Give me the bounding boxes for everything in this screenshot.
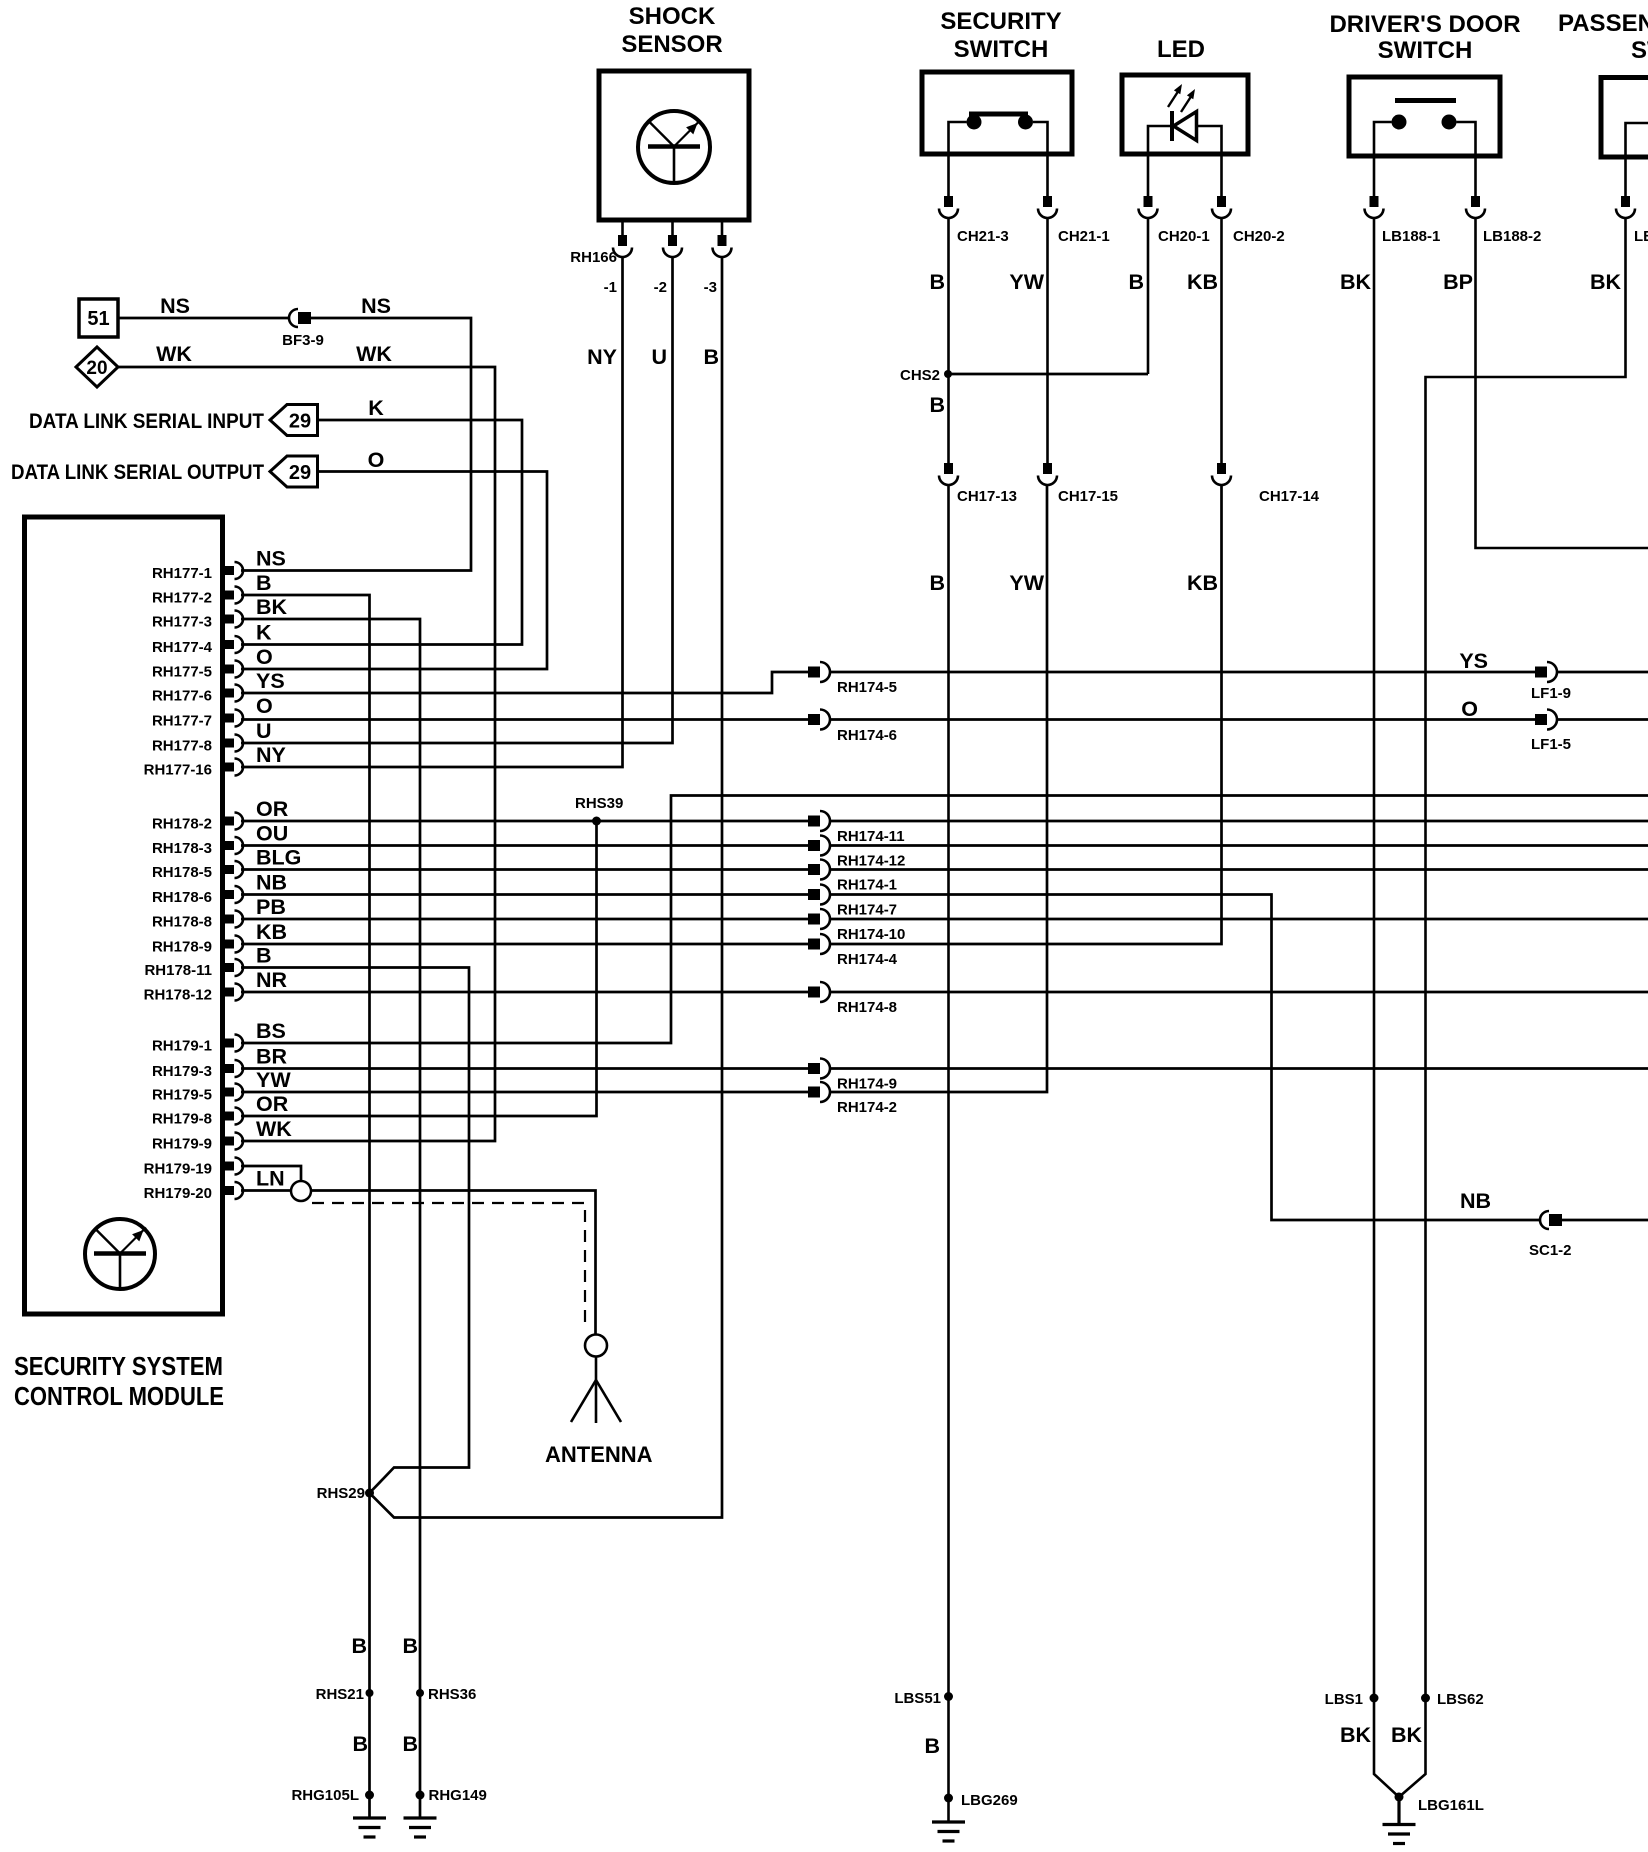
svg-text:O: O	[256, 645, 273, 669]
module pin RH177-3	[225, 611, 243, 628]
wire NB to lower run	[829, 895, 1540, 1221]
svg-text:B: B	[402, 1634, 418, 1658]
wire YW RH179-5 to RH174-2	[241, 1091, 808, 1094]
security switch contact right	[1018, 115, 1033, 130]
source diamond 20	[76, 347, 118, 387]
wire B LED down to CHS2 level	[1147, 218, 1150, 374]
module internal transistor symbol	[85, 1219, 155, 1289]
wire security switch left stub	[949, 122, 967, 197]
connector RH174-6	[808, 710, 830, 730]
ground RHG105L	[353, 1818, 386, 1837]
svg-text:RH177-16: RH177-16	[144, 762, 212, 779]
wire KB to LED CH17-14	[829, 486, 1222, 944]
node RHG105L	[365, 1791, 374, 1800]
svg-text:OR: OR	[256, 797, 289, 821]
svg-text:LF1-5: LF1-5	[1531, 736, 1571, 753]
svg-text:RH178-3: RH178-3	[152, 840, 212, 857]
module pin RH178-6	[225, 886, 243, 903]
svg-text:B: B	[929, 270, 945, 294]
wire PB RH178-8 to RH174-10	[241, 918, 808, 921]
node LBS62	[1421, 1694, 1430, 1703]
module pin RH177-7	[225, 710, 243, 727]
antenna mast	[595, 1357, 598, 1381]
svg-text:LB188-2: LB188-2	[1483, 228, 1541, 245]
module pin RH177-4	[225, 636, 243, 653]
driver's door switch box	[1349, 77, 1500, 156]
label SECURITY SWITCH title	[940, 8, 1061, 63]
connector RH174-9	[808, 1059, 830, 1079]
module pin RH177-5	[225, 661, 243, 678]
wire NB RH178-6 to RH174-7	[241, 893, 808, 896]
svg-text:WK: WK	[356, 342, 392, 366]
wire B security switch down to CH17-13	[947, 218, 950, 464]
wire NY RH177-16 to shock sensor pin 1	[241, 257, 623, 767]
svg-text:B: B	[929, 393, 945, 417]
label DRIVER'S DOOR SWITCH title	[1329, 11, 1520, 64]
svg-text:CH17-14: CH17-14	[1259, 488, 1320, 505]
label PASSENGER'S DOOR SWITCH title (clipped)	[1558, 10, 1648, 64]
wire YW security down to CH17-15	[1046, 218, 1049, 464]
wire LBG161L ground stub	[1397, 1797, 1400, 1825]
connector pin RH166-2	[663, 235, 682, 257]
shock sensor pin RH166-3 stub	[721, 220, 724, 236]
wire driver switch right stub	[1457, 122, 1476, 197]
connector LF1-9	[1535, 662, 1557, 682]
svg-text:YW: YW	[1009, 270, 1044, 294]
connector RH174-4	[808, 934, 830, 954]
security switch contact left	[967, 115, 982, 130]
svg-text:NB: NB	[1460, 1189, 1491, 1213]
wire NS to module pin RH177-1	[241, 318, 471, 571]
svg-text:SWITCH: SWITCH	[1631, 37, 1648, 64]
svg-text:51: 51	[87, 308, 109, 330]
svg-text:RH174-10: RH174-10	[837, 926, 905, 943]
svg-text:K: K	[256, 621, 272, 645]
svg-text:RHG105L: RHG105L	[291, 1787, 359, 1804]
antenna coil circle	[585, 1335, 607, 1357]
svg-text:RH174-7: RH174-7	[837, 902, 897, 919]
svg-text:WK: WK	[256, 1117, 292, 1141]
wire antenna shield (dashed)	[312, 1203, 585, 1330]
svg-text:O: O	[256, 694, 273, 718]
node RHS36	[416, 1689, 424, 1697]
module pin RH179-1	[225, 1035, 243, 1052]
wire O RH177-7 to RH174-6	[241, 718, 808, 721]
node CHS2	[944, 370, 952, 378]
svg-text:RH174-6: RH174-6	[837, 727, 897, 744]
svg-text:RH177-6: RH177-6	[152, 688, 212, 705]
wire B RH177-2 to ground rail	[241, 595, 370, 1818]
svg-text:LBS51: LBS51	[894, 1690, 941, 1707]
svg-text:BK: BK	[1590, 270, 1622, 294]
module pin RH177-6	[225, 685, 243, 702]
svg-text:BLG: BLG	[256, 846, 301, 870]
svg-text:LF1-9: LF1-9	[1531, 685, 1571, 702]
data link serial input arrow 29	[270, 405, 318, 436]
svg-text:-2: -2	[654, 279, 667, 296]
wire PB off right edge	[829, 918, 1648, 921]
wire OR off right edge	[829, 820, 1648, 823]
svg-text:B: B	[929, 571, 945, 595]
module pin RH179-3	[225, 1060, 243, 1077]
connector RH174-8	[808, 982, 830, 1002]
node LBS1	[1370, 1694, 1379, 1703]
svg-text:CH20-1: CH20-1	[1158, 228, 1210, 245]
svg-text:DATA LINK SERIAL OUTPUT: DATA LINK SERIAL OUTPUT	[11, 460, 264, 484]
node LBG161L	[1395, 1793, 1404, 1802]
svg-text:KB: KB	[1187, 571, 1218, 595]
wire B RH178-11 to node RHS29	[241, 968, 469, 1494]
svg-text:LBS1: LBS1	[1325, 1691, 1363, 1708]
node RHS21	[366, 1689, 374, 1697]
module pin RH178-9	[225, 936, 243, 953]
svg-text:RH179-5: RH179-5	[152, 1087, 212, 1104]
wire NS from box 51	[119, 317, 289, 320]
svg-text:RH179-19: RH179-19	[144, 1161, 212, 1178]
wire K to module pin RH177-4	[241, 420, 522, 645]
svg-text:RHS29: RHS29	[317, 1485, 365, 1502]
svg-text:RH177-5: RH177-5	[152, 664, 212, 681]
svg-text:RH177-8: RH177-8	[152, 738, 212, 755]
shock sensor pin RH166-2 stub	[671, 220, 674, 236]
svg-text:U: U	[651, 345, 667, 369]
svg-text:PB: PB	[256, 895, 286, 919]
wire OR RH178-2 to RH174-11	[241, 820, 808, 823]
connector RH174-2	[808, 1082, 830, 1102]
connector RH174-10	[808, 909, 830, 929]
wire driver switch left stub	[1374, 122, 1392, 197]
label SHOCK SENSOR title	[621, 3, 722, 58]
svg-text:O: O	[368, 448, 385, 472]
svg-text:RH177-7: RH177-7	[152, 713, 212, 730]
wire O to LF1-5	[829, 718, 1535, 721]
svg-text:RHS39: RHS39	[575, 795, 623, 812]
antenna leg left	[571, 1380, 596, 1422]
svg-text:RH179-3: RH179-3	[152, 1063, 212, 1080]
svg-text:B: B	[352, 1732, 368, 1756]
svg-text:BK: BK	[1340, 1723, 1372, 1747]
svg-text:K: K	[368, 396, 384, 420]
module pin RH179-5	[225, 1084, 243, 1101]
module pin RH178-12	[225, 984, 243, 1001]
wire BLG RH178-5 to RH174-1	[241, 868, 808, 871]
wire CHS2 branch to LED B	[949, 373, 1149, 376]
svg-text:20: 20	[86, 358, 107, 379]
antenna leg right	[596, 1380, 621, 1422]
connector RH174-11	[808, 811, 830, 831]
svg-text:O: O	[1461, 697, 1478, 721]
svg-text:-3: -3	[704, 279, 717, 296]
wire O off right edge	[1556, 718, 1648, 721]
svg-text:BK: BK	[1391, 1723, 1423, 1747]
svg-text:RH178-11: RH178-11	[144, 962, 212, 979]
wire OU off right edge	[829, 844, 1648, 847]
svg-text:NS: NS	[256, 547, 286, 571]
wire LN RH179-20 to junction circle	[241, 1189, 291, 1192]
antenna leg middle	[595, 1380, 598, 1423]
svg-text:BS: BS	[256, 1019, 286, 1043]
svg-text:LBG269: LBG269	[961, 1792, 1018, 1809]
svg-text:CH21-3: CH21-3	[957, 228, 1009, 245]
connector CH17-13	[939, 463, 958, 485]
wire B security to ground LBG269	[947, 486, 950, 1823]
module pin RH178-8	[225, 911, 243, 928]
svg-text:RH178-6: RH178-6	[152, 889, 212, 906]
connector RH174-7	[808, 885, 830, 905]
connector pin LB188 (passenger)	[1616, 196, 1635, 218]
LED D1 triangle	[1174, 112, 1197, 141]
module pin RH178-5	[225, 861, 243, 878]
svg-text:RH174-2: RH174-2	[837, 1099, 897, 1116]
svg-text:CHS2: CHS2	[900, 367, 940, 384]
wire WK to module pin RH179-9	[118, 367, 495, 1141]
LED emission arrow 1	[1168, 84, 1182, 107]
svg-text:RH177-3: RH177-3	[152, 614, 212, 631]
module pin RH177-1	[225, 562, 243, 579]
svg-text:BF3-9: BF3-9	[282, 332, 324, 349]
svg-text:RH178-12: RH178-12	[144, 987, 212, 1004]
svg-text:LBS62: LBS62	[1437, 1691, 1484, 1708]
wire NR off right edge	[829, 991, 1648, 994]
svg-text:RH178-5: RH178-5	[152, 864, 212, 881]
svg-text:B: B	[256, 571, 272, 595]
wire NB off right edge	[1562, 1219, 1648, 1222]
svg-text:B: B	[351, 1634, 367, 1658]
svg-text:WK: WK	[156, 342, 192, 366]
wire BLG off right edge	[829, 868, 1648, 871]
svg-text:RHS21: RHS21	[316, 1686, 364, 1703]
connector pin CH20-2	[1212, 196, 1231, 218]
svg-text:RH177-4: RH177-4	[152, 639, 213, 656]
node RHS39	[592, 817, 601, 826]
wire O to module pin RH177-5	[241, 472, 547, 670]
wire security switch right stub	[1033, 122, 1048, 197]
svg-text:BR: BR	[256, 1045, 288, 1069]
svg-text:YW: YW	[1009, 571, 1044, 595]
svg-text:RH174-1: RH174-1	[837, 877, 897, 894]
svg-text:OR: OR	[256, 1092, 289, 1116]
connector CH17-15	[1038, 463, 1057, 485]
connector BF3-9	[289, 309, 311, 327]
svg-text:KB: KB	[256, 920, 287, 944]
wire YS off right edge	[1556, 671, 1648, 674]
svg-text:SENSOR: SENSOR	[621, 31, 722, 58]
svg-text:LBG161L: LBG161L	[1418, 1797, 1484, 1814]
wire passenger switch stub	[1626, 123, 1648, 197]
svg-text:RH179-1: RH179-1	[152, 1038, 212, 1055]
svg-text:NY: NY	[587, 345, 617, 369]
wire BP driver off right edge	[1476, 218, 1648, 548]
connector pin CH21-3	[939, 196, 958, 218]
module pin RH177-2	[225, 587, 243, 604]
svg-text:SECURITY SYSTEM: SECURITY SYSTEM	[14, 1351, 223, 1381]
module pin RH178-11	[225, 959, 243, 976]
wire LN to antenna mast	[311, 1191, 596, 1335]
connector LF1-5	[1535, 710, 1557, 730]
connector pin RH166-1	[613, 235, 632, 257]
svg-text:NY: NY	[256, 743, 286, 767]
svg-text:BK: BK	[1340, 270, 1372, 294]
svg-text:SECURITY: SECURITY	[940, 8, 1061, 35]
security switch box	[922, 72, 1072, 154]
passenger's door switch box (clipped)	[1601, 78, 1648, 158]
wire U RH177-8 to shock sensor pin 2	[241, 257, 673, 743]
svg-text:RH174-12: RH174-12	[837, 853, 905, 870]
svg-text:SHOCK: SHOCK	[629, 3, 716, 30]
module pin RH178-2	[225, 813, 243, 830]
svg-text:LB188-1: LB188-1	[1382, 228, 1440, 245]
module pin RH177-8	[225, 735, 243, 752]
svg-text:YS: YS	[1459, 649, 1488, 673]
wire KB RH178-9 to RH174-4	[241, 943, 808, 946]
svg-text:NR: NR	[256, 968, 288, 992]
power source box 51	[79, 299, 118, 337]
security switch contact bar	[969, 112, 1028, 117]
shock sensor box	[599, 71, 749, 220]
svg-text:RH178-9: RH178-9	[152, 939, 212, 956]
LED emission arrow 2	[1181, 89, 1195, 112]
data link serial output arrow 29	[270, 456, 318, 487]
svg-text:LED: LED	[1157, 36, 1205, 63]
svg-text:CH20-2: CH20-2	[1233, 228, 1285, 245]
svg-text:LN: LN	[256, 1167, 285, 1191]
svg-text:NS: NS	[160, 294, 190, 318]
wire RH179-19 to LN junction circle	[241, 1166, 301, 1181]
svg-text:B: B	[1128, 270, 1144, 294]
svg-text:CONTROL MODULE: CONTROL MODULE	[14, 1381, 224, 1411]
svg-text:BP: BP	[1443, 270, 1473, 294]
svg-text:NS: NS	[361, 294, 391, 318]
svg-text:ANTENNA: ANTENNA	[545, 1442, 653, 1467]
svg-text:RH179-8: RH179-8	[152, 1111, 212, 1128]
connector pin CH21-1	[1038, 196, 1057, 218]
wire BK RH177-3 to ground rail	[241, 619, 420, 1818]
svg-text:29: 29	[289, 462, 311, 484]
connector CH17-14	[1212, 463, 1231, 485]
svg-text:CH21-1: CH21-1	[1058, 228, 1110, 245]
wire shock sensor B pin 3 to node RHS29	[370, 257, 723, 1518]
svg-text:B: B	[402, 1732, 418, 1756]
node LBS51	[944, 1692, 953, 1701]
svg-text:CH17-15: CH17-15	[1058, 488, 1118, 505]
connector RH174-12	[808, 836, 830, 856]
connector pin LB188-2	[1466, 196, 1485, 218]
svg-text:RH174-11: RH174-11	[837, 828, 905, 845]
node RHS29	[365, 1489, 374, 1498]
svg-text:B: B	[703, 345, 719, 369]
svg-text:CH17-13: CH17-13	[957, 488, 1017, 505]
svg-text:DATA LINK SERIAL INPUT: DATA LINK SERIAL INPUT	[29, 409, 264, 433]
svg-text:SWITCH: SWITCH	[954, 36, 1049, 63]
shock sensor internal transistor symbol	[638, 111, 710, 183]
connector RH174-5	[808, 662, 830, 682]
ground RHG149	[404, 1818, 437, 1837]
svg-text:29: 29	[289, 411, 311, 433]
connector pin RH166-3	[713, 235, 732, 257]
svg-text:RH174-8: RH174-8	[837, 999, 897, 1016]
svg-text:-1: -1	[604, 279, 617, 296]
wire KB LED down to CH17-14	[1220, 218, 1223, 464]
svg-text:KB: KB	[1187, 270, 1218, 294]
svg-text:SWITCH: SWITCH	[1378, 37, 1473, 64]
node RHG149	[416, 1791, 425, 1800]
wire YS to LF1-9	[829, 671, 1535, 674]
svg-text:RHG149: RHG149	[429, 1787, 487, 1804]
svg-text:YS: YS	[256, 669, 285, 693]
wire BR RH179-3 to RH174-9	[241, 1067, 808, 1070]
shock sensor pin RH166-1 stub	[621, 220, 624, 236]
driver's door switch contact left	[1392, 115, 1407, 130]
module pin RH179-20	[225, 1182, 243, 1199]
svg-text:SC1-2: SC1-2	[1529, 1242, 1572, 1259]
svg-text:RH178-2: RH178-2	[152, 816, 212, 833]
module pin RH179-19	[225, 1158, 243, 1175]
svg-text:RH179-9: RH179-9	[152, 1136, 212, 1153]
wire OU RH178-3 to RH174-12	[241, 844, 808, 847]
svg-text:RH174-5: RH174-5	[837, 679, 897, 696]
driver's door switch contact right	[1442, 115, 1457, 130]
svg-text:RH166: RH166	[570, 249, 617, 266]
svg-text:RHS36: RHS36	[428, 1686, 476, 1703]
module pin RH178-3	[225, 837, 243, 854]
module pin RH177-16	[225, 759, 243, 776]
connector pin CH20-1	[1139, 196, 1158, 218]
svg-text:RH179-20: RH179-20	[144, 1185, 212, 1202]
connector pin LB188-1	[1365, 196, 1384, 218]
security system control module box	[25, 517, 223, 1314]
wire NR RH178-12 to RH174-8	[241, 991, 808, 994]
svg-text:RH177-1: RH177-1	[152, 565, 212, 582]
wire LED left stub	[1148, 126, 1172, 197]
svg-text:DRIVER'S DOOR: DRIVER'S DOOR	[1329, 11, 1520, 38]
svg-text:RH178-8: RH178-8	[152, 914, 212, 931]
wire BR off right edge	[829, 1067, 1648, 1070]
LN junction circle	[291, 1181, 311, 1201]
LED box	[1122, 75, 1248, 154]
LED D1 cathode bar	[1170, 111, 1174, 141]
connector RH174-1	[808, 860, 830, 880]
wire OR RHS39 branch to RH179-8	[241, 821, 597, 1116]
connector SC1-2	[1540, 1211, 1562, 1229]
svg-text:LB188: LB188	[1634, 228, 1648, 245]
svg-text:PASSENGER'S DOOR: PASSENGER'S DOOR	[1558, 10, 1648, 37]
node LBG269	[944, 1794, 953, 1803]
svg-text:NB: NB	[256, 871, 287, 895]
svg-text:B: B	[924, 1734, 940, 1758]
ground LBG161L	[1383, 1825, 1416, 1844]
svg-text:YW: YW	[256, 1068, 291, 1092]
wire BS RH179-1 off right edge	[241, 796, 1648, 1044]
svg-text:OU: OU	[256, 822, 288, 846]
svg-text:RH177-2: RH177-2	[152, 590, 212, 607]
svg-text:RH174-9: RH174-9	[837, 1076, 897, 1093]
svg-text:U: U	[256, 719, 272, 743]
wire YW to security switch CH17-15	[829, 486, 1047, 1092]
wire BK driver to LBG161L	[1374, 218, 1399, 1797]
driver's door switch bar	[1395, 98, 1456, 103]
svg-text:RH174-4: RH174-4	[837, 951, 898, 968]
wire BK passenger to LBG161L	[1399, 218, 1626, 1797]
ground LBG269	[932, 1822, 965, 1841]
wire YS RH177-6 to RH174-5	[241, 672, 808, 693]
module pin RH179-8	[225, 1108, 243, 1125]
wire LED right stub	[1197, 126, 1222, 197]
module pin RH179-9	[225, 1133, 243, 1150]
svg-text:BK: BK	[256, 595, 288, 619]
svg-text:B: B	[256, 944, 272, 968]
